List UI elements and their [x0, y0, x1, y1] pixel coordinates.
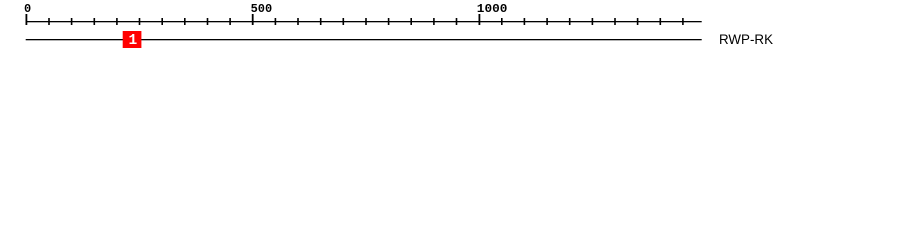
svg-text:1: 1: [129, 33, 138, 49]
svg-text:1000: 1000: [477, 2, 508, 16]
svg-text:0: 0: [24, 2, 31, 16]
svg-text:RWP-RK: RWP-RK: [719, 31, 774, 47]
svg-text:500: 500: [251, 2, 273, 16]
